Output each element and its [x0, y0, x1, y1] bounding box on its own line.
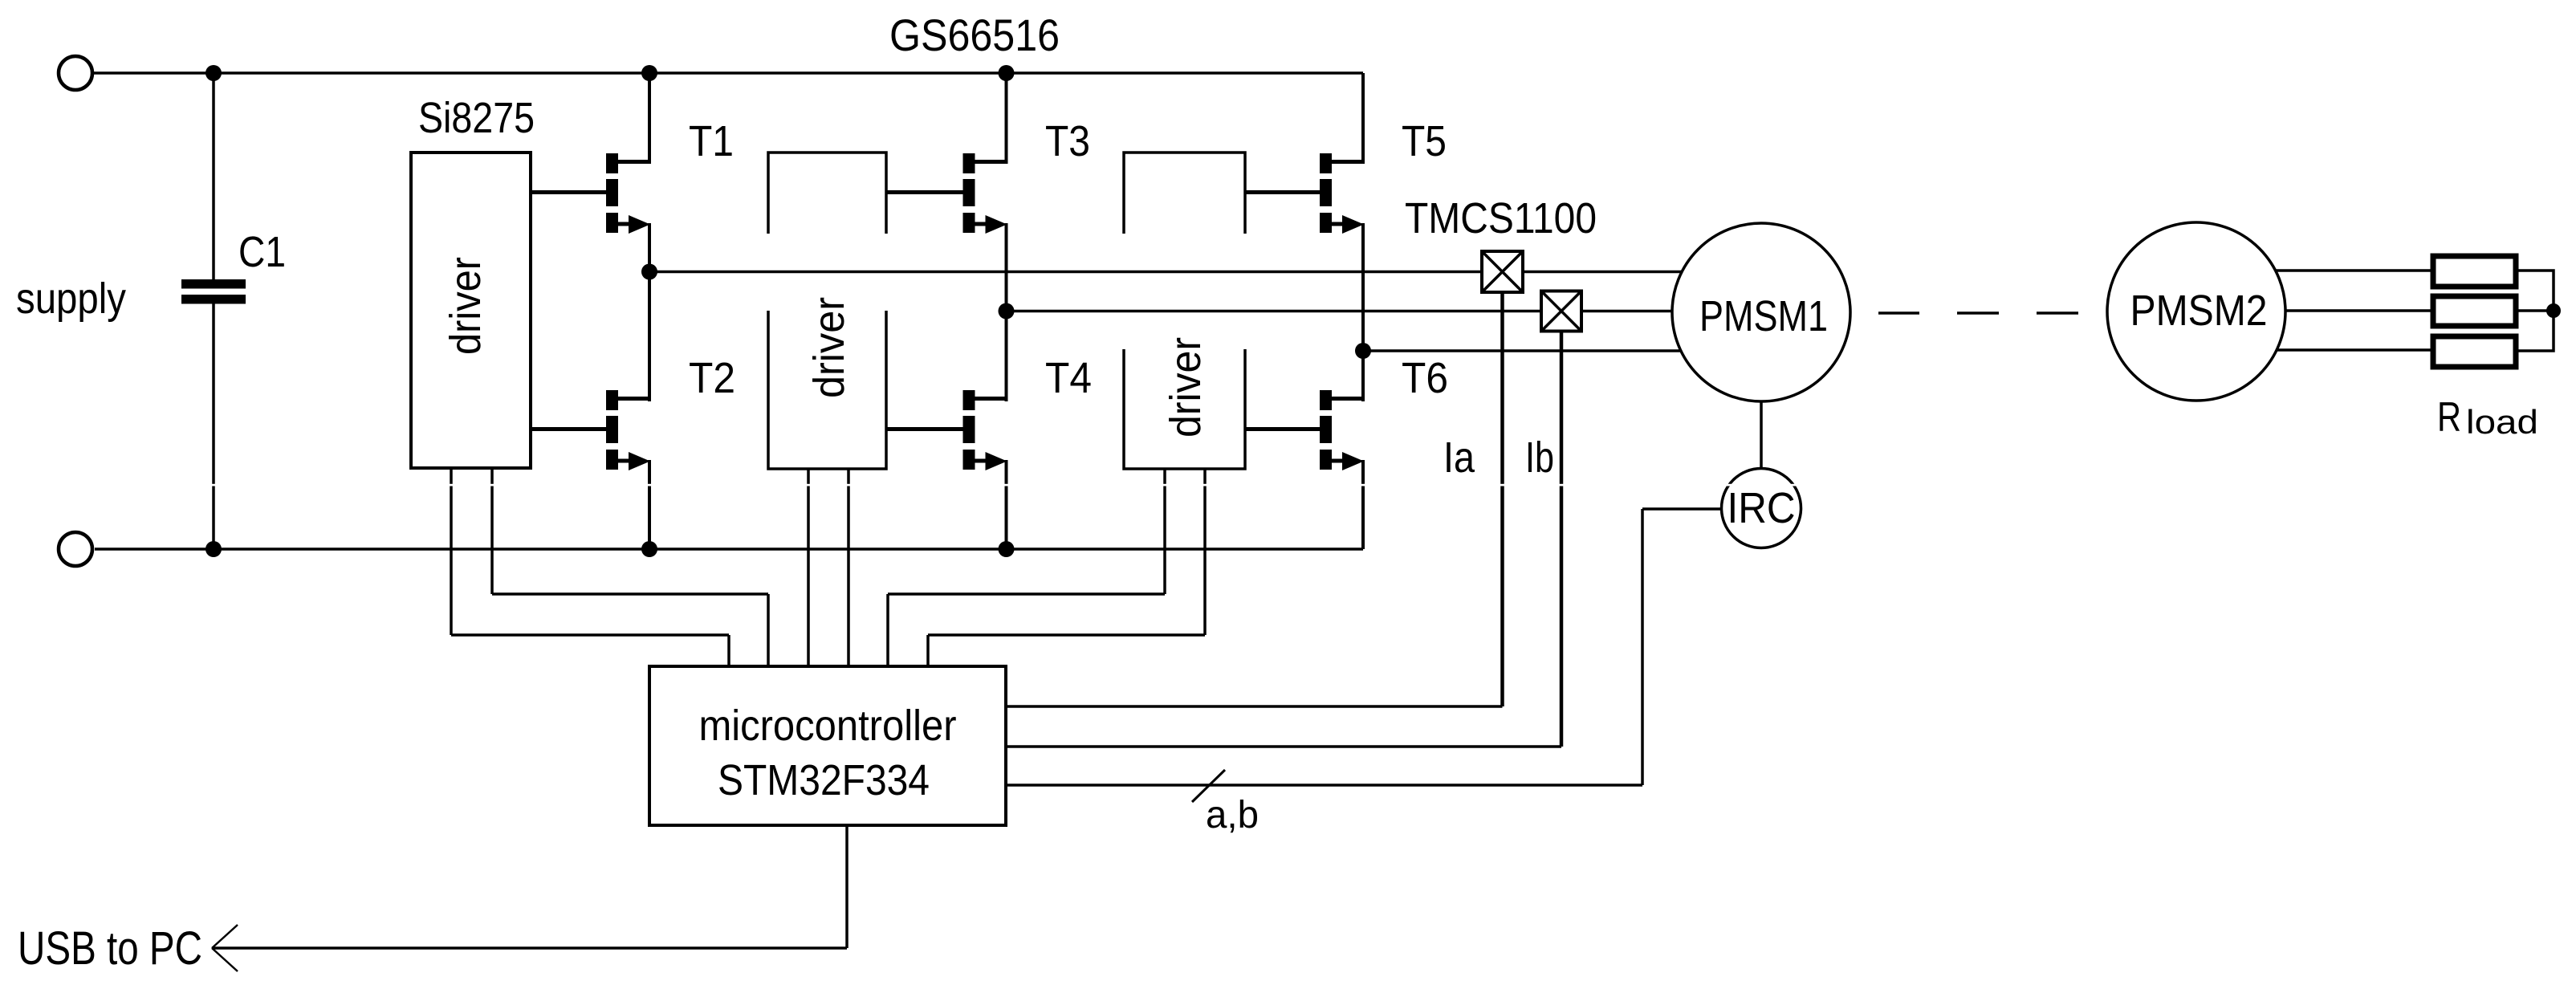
wire: Ia signal down — [1500, 292, 1504, 706]
resistor Rload phase 3 — [2433, 336, 2516, 367]
wire: C1 bottom lead — [212, 303, 215, 549]
wire: T5 drain to top rail — [1361, 73, 1365, 164]
label Ib — [1525, 433, 1554, 482]
wire: Ib signal down — [1560, 332, 1564, 747]
node: Rload star point — [2546, 303, 2561, 318]
wire: T4 source to bottom rail — [1005, 460, 1008, 549]
svg-text:T3: T3 — [1045, 117, 1090, 165]
wire: uC to Ia — [1006, 705, 1503, 708]
wire: uC USB down — [845, 825, 848, 948]
svg-text:GS66516: GS66516 — [889, 10, 1060, 60]
label Si8275 — [418, 94, 535, 142]
svg-text:a,b: a,b — [1206, 794, 1259, 836]
node: bottom rail / T4 source — [999, 541, 1015, 557]
svg-text:T6: T6 — [1402, 354, 1448, 402]
driver U3 box (sides broken by phase A,B) — [1124, 153, 1245, 469]
wire: PMSM1 shaft to IRC — [1760, 400, 1763, 470]
motor PMSM1 — [1672, 223, 1850, 401]
svg-text:driver: driver — [442, 257, 490, 355]
label microcontroller — [699, 702, 957, 750]
svg-text:PMSM1: PMSM1 — [1699, 292, 1828, 340]
transistor T1 (GaN FET) — [531, 153, 651, 234]
motor PMSM2 — [2107, 222, 2285, 401]
node: top rail / T1 drain — [641, 65, 657, 81]
wire: U1 pin1 horizontal — [451, 633, 729, 637]
wire: T2 source to bottom rail — [648, 460, 651, 549]
label PMSM1 — [1699, 292, 1828, 340]
wire: T6 drain to phase node — [1361, 351, 1365, 401]
wire: Rload right middle — [2516, 309, 2554, 312]
svg-text:R: R — [2437, 394, 2461, 441]
wire: U2 pin1 to uC — [807, 469, 810, 666]
supply terminal (+) — [59, 56, 92, 90]
wire: uC pin1 up — [727, 635, 730, 666]
transistor T6 (GaN FET) — [1245, 390, 1365, 470]
label a,b — [1206, 794, 1259, 836]
svg-text:USB to PC: USB to PC — [18, 922, 202, 975]
label driver U3 — [1162, 337, 1210, 438]
svg-text:TMCS1100: TMCS1100 — [1405, 194, 1597, 242]
label GS66516 — [889, 10, 1060, 60]
svg-text:Ia: Ia — [1443, 433, 1475, 482]
label T1 — [689, 117, 734, 165]
wire: U3 pin2 down — [1203, 469, 1207, 635]
wire: uC pin2 up — [767, 594, 770, 666]
dashed shaft coupling PMSM1-PMSM2 — [1878, 311, 2078, 315]
wire: T3 source to phase node — [1005, 223, 1008, 311]
label T5 — [1402, 117, 1447, 165]
wire: uC pin6 up — [926, 635, 930, 666]
svg-text:driver: driver — [1162, 337, 1210, 438]
wire: PMSM2 phase 2 to Rload — [2248, 309, 2433, 312]
label C1 — [238, 228, 286, 276]
wire: phase C line (T5/T6 node to PMSM1) — [1363, 349, 1710, 352]
svg-text:PMSM2: PMSM2 — [2130, 287, 2268, 335]
svg-text:C1: C1 — [238, 228, 286, 276]
current sensor TMCS1100 (Ia) — [1482, 251, 1523, 292]
transistor T5 (GaN FET) — [1245, 153, 1365, 234]
svg-text:IRC: IRC — [1728, 484, 1796, 532]
driver U2 box (sides broken by phase A) — [768, 153, 886, 469]
label Ia — [1443, 433, 1475, 482]
label supply — [16, 275, 126, 323]
wire: Rload right top — [2516, 271, 2554, 311]
node: bottom rail / T2 source — [641, 541, 657, 557]
capacitor C1 — [181, 279, 246, 304]
supply terminal (-) — [59, 532, 92, 566]
transistor T2 (GaN FET) — [531, 390, 651, 470]
wire: U1 pin2 horizontal — [492, 592, 768, 596]
wire: PMSM2 phase 3 to Rload — [2248, 348, 2433, 352]
wire: phase B line (T3/T4 node to PMSM1) — [1007, 310, 1711, 313]
resistor Rload phase 1 — [2433, 256, 2516, 287]
node: top rail / C1 — [206, 65, 222, 81]
label Rload — [2437, 394, 2538, 441]
label driver U1 — [442, 257, 490, 355]
seam: white band cutting vertical strokes at y=603 — [0, 484, 2576, 486]
svg-text:Ib: Ib — [1525, 433, 1554, 482]
USB arrow head — [212, 925, 238, 971]
microcontroller U4 box — [649, 666, 1006, 825]
svg-text:T1: T1 — [689, 117, 734, 165]
wire: uC to Ib — [1006, 745, 1561, 748]
wire: USB to PC line — [212, 946, 847, 950]
wire: T3 drain to top rail — [1005, 73, 1008, 164]
wire: U1 pin1 down — [450, 468, 453, 635]
wire: uC to IRC (a,b bus) — [1006, 784, 1642, 787]
wire: T6 source to bottom rail — [1361, 460, 1365, 549]
label STM32F334 — [718, 756, 930, 804]
wire: U2 pin2 to uC — [847, 469, 850, 666]
wire: T1 source to phase node — [648, 223, 651, 272]
svg-text:driver: driver — [805, 297, 853, 398]
driver U1 Si8275 box — [411, 153, 531, 468]
svg-text:Si8275: Si8275 — [418, 94, 535, 142]
wire: T2 drain to phase node — [648, 272, 651, 402]
wire: bottom supply rail — [95, 547, 1363, 551]
node C: phase C — [1355, 343, 1371, 359]
svg-text:T4: T4 — [1045, 354, 1092, 402]
label PMSM2 — [2130, 287, 2268, 335]
node B: phase B — [999, 303, 1015, 320]
wire: Rload right bottom — [2516, 311, 2554, 351]
svg-text:microcontroller: microcontroller — [699, 702, 957, 750]
node: top rail / T3 drain — [999, 65, 1015, 81]
wire: U1 pin2 down — [490, 468, 494, 594]
transistor T3 (GaN FET) — [886, 153, 1008, 234]
wire: uC pin5 up — [886, 594, 889, 666]
svg-text:T5: T5 — [1402, 117, 1447, 165]
label T2 — [689, 354, 735, 402]
node: bottom rail / C1 — [206, 541, 222, 557]
node A: phase A — [641, 264, 657, 280]
current sensor TMCS1100 (Ib) — [1541, 291, 1581, 332]
label T4 — [1045, 354, 1092, 402]
label TMCS1100 — [1405, 194, 1597, 242]
wire: C1 top lead — [212, 73, 215, 279]
wire: IRC bus vertical — [1641, 509, 1644, 785]
label driver U2 — [805, 297, 853, 398]
svg-text:load: load — [2466, 403, 2538, 441]
wire: U3 pin1 down — [1163, 469, 1166, 594]
label IRC — [1728, 484, 1796, 532]
label USB to PC — [18, 922, 202, 975]
label T3 — [1045, 117, 1090, 165]
wire: phase A line (T1/T2 node to PMSM1) — [649, 271, 1710, 274]
wire: top supply rail — [94, 71, 1363, 75]
svg-text:T2: T2 — [689, 354, 735, 402]
wire: T5 source to phase node — [1361, 223, 1365, 351]
svg-text:supply: supply — [16, 275, 126, 323]
wire: U3 pin1 horizontal — [888, 592, 1165, 596]
label T6 — [1402, 354, 1448, 402]
encoder IRC — [1722, 469, 1801, 548]
bus slash mark — [1192, 770, 1225, 802]
resistor Rload phase 2 — [2433, 296, 2516, 326]
wire: U3 pin2 horizontal — [928, 633, 1205, 637]
wire: IRC bus horizontal — [1642, 507, 1723, 511]
transistor T4 (GaN FET) — [886, 390, 1008, 470]
svg-text:STM32F334: STM32F334 — [718, 756, 930, 804]
wire: T1 drain to top rail — [648, 73, 651, 164]
wire: PMSM2 phase 1 to Rload — [2248, 269, 2433, 272]
wire: T4 drain to phase node — [1005, 311, 1008, 402]
